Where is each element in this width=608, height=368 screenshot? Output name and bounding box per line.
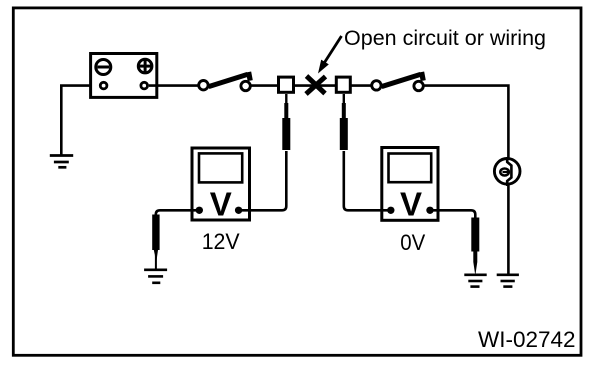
probe P4 (V2 to ground) [471,218,479,274]
ground G3 (V2 probe) [464,275,486,287]
wire: V2 left lead up to probe [344,151,391,210]
voltmeter V1 box [192,148,250,220]
voltmeter V2 left terminal dot [387,207,394,214]
ground G4 (lamp) [497,275,519,287]
svg-text:V: V [400,186,422,223]
switch SW2 [372,72,424,91]
battery positive terminal symbol [138,59,152,73]
switch SW1 [199,72,251,91]
wire: V1 right lead up to probe [239,151,287,210]
wire: battery left terminal to left ground [61,86,99,155]
connector square left [279,77,294,92]
battery right post circle [141,82,148,89]
probe P3 (below right connector) [340,94,348,150]
ground G1 (battery) [50,156,73,168]
wire through open circuit point [295,84,336,87]
wire: V1 left lead [156,210,200,216]
svg-text:V: V [210,186,232,223]
callout arrow to open circuit [318,36,342,74]
svg-text:Open circuit or wiring: Open circuit or wiring [344,27,546,50]
voltmeter V1 screen [199,153,242,182]
probe P1 (V1 to ground) [152,215,159,270]
voltmeter V2 box [382,148,438,221]
probe P2 (below left connector) [282,94,290,150]
svg-text:12V: 12V [202,229,240,254]
lamp L1 [494,157,520,186]
svg-text:WI-02742: WI-02742 [478,327,576,352]
wire: lamp to ground [507,185,510,275]
wire: SW2 to lamp [425,86,509,158]
battery B1 box [91,54,157,98]
ground G2 (V1 probe) [144,270,167,283]
wire: battery to switch SW1 [149,84,198,87]
voltmeter V1 left terminal dot [196,207,203,214]
voltmeter V2 right terminal dot [426,207,433,214]
voltmeter V2 screen [389,154,432,183]
wire: SW1 to left connector [252,84,279,87]
voltmeter V1 right terminal dot [235,207,242,214]
svg-text:0V: 0V [400,230,425,255]
wire: V2 right lead [430,210,475,218]
open circuit X mark [306,76,326,94]
battery negative terminal symbol [96,60,111,75]
connector square right [336,77,350,92]
battery left post circle [100,82,107,89]
wire: right connector to switch SW2 [351,84,372,87]
